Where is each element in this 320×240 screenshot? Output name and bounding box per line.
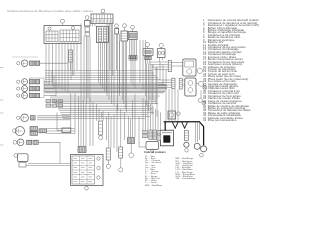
wire — [51, 70, 53, 81]
CDI inner cell B — [103, 28, 106, 42]
switch cell grid left — [46, 31, 58, 42]
item 29 callout — [177, 112, 181, 116]
wire — [117, 34, 119, 111]
wire — [78, 96, 80, 146]
lamp item 22 — [22, 86, 28, 92]
lamp connector 22a — [30, 86, 35, 90]
wire — [73, 42, 75, 76]
wire — [89, 36, 91, 102]
wire — [63, 118, 145, 120]
TORS box — [115, 28, 119, 34]
wire — [171, 89, 173, 122]
wire — [134, 94, 136, 137]
wire — [111, 24, 113, 104]
CDI inner cell A — [98, 28, 101, 42]
item 36 callout — [185, 149, 189, 153]
harness connector B — [179, 78, 182, 89]
wire — [58, 42, 60, 89]
connector block (item 4) — [91, 14, 113, 24]
wire — [155, 67, 157, 104]
wire — [147, 102, 149, 130]
item 38 callout — [99, 136, 103, 140]
wire — [52, 44, 54, 86]
wire — [172, 62, 183, 64]
item 10 callout — [145, 43, 149, 47]
wire — [37, 117, 70, 119]
wire — [55, 103, 158, 105]
relay box — [85, 21, 91, 27]
wire — [158, 84, 172, 86]
harness connector A — [172, 78, 175, 88]
left margin wire stubs — [0, 67, 4, 69]
wire — [123, 62, 125, 104]
wire — [132, 59, 134, 86]
wire — [92, 102, 94, 146]
wire — [67, 42, 69, 93]
wire — [56, 112, 58, 130]
tail connector — [27, 140, 32, 144]
wire — [62, 23, 64, 25]
harness connector D — [69, 50, 73, 62]
wire — [130, 40, 132, 56]
ignition coil — [128, 32, 137, 40]
wire — [113, 34, 115, 106]
fuse callout a — [97, 157, 100, 160]
wire — [196, 70, 197, 72]
connector box item 8 — [121, 31, 128, 41]
tail lamp — [17, 139, 24, 146]
wire — [109, 24, 111, 71]
wire — [172, 65, 183, 67]
battery — [160, 130, 173, 146]
wire — [112, 24, 114, 76]
wire — [156, 67, 158, 117]
handlebar switch assembly box — [44, 26, 81, 44]
wire — [52, 99, 157, 101]
wire — [44, 83, 166, 85]
wire — [128, 117, 130, 138]
item 28 callout — [151, 149, 154, 152]
wire — [130, 144, 132, 153]
wire — [126, 41, 128, 62]
wire — [38, 141, 60, 143]
item 24 callout — [17, 116, 20, 119]
wire — [108, 112, 110, 147]
wire — [149, 62, 151, 100]
wire — [138, 117, 140, 148]
lamp connector 22b — [35, 86, 40, 90]
fuse box top connector — [78, 147, 86, 153]
item 20 callout — [17, 62, 20, 65]
wire — [152, 65, 154, 101]
fuse callout c — [97, 176, 100, 179]
wire — [87, 36, 89, 98]
wire — [70, 42, 72, 80]
wire — [86, 36, 88, 104]
wire — [158, 79, 172, 81]
wire — [119, 34, 121, 96]
wire — [132, 29, 134, 32]
item 23 callout — [17, 94, 20, 97]
wire — [182, 84, 184, 86]
wire — [142, 40, 144, 90]
wire — [177, 90, 179, 122]
wire — [129, 40, 131, 56]
wire — [45, 72, 154, 74]
wire — [145, 40, 147, 96]
wire — [124, 28, 126, 32]
wire — [97, 43, 99, 84]
wire — [86, 186, 88, 187]
wire — [67, 63, 69, 70]
wire — [45, 44, 47, 84]
wire — [148, 64, 150, 111]
wire — [124, 62, 126, 109]
wire — [102, 111, 104, 121]
item 22 callout — [17, 87, 20, 90]
magneto boss — [184, 142, 189, 147]
flasher relay — [18, 154, 29, 162]
wire — [158, 87, 172, 89]
wire — [28, 163, 71, 165]
sensor box — [157, 49, 165, 58]
wire — [157, 111, 159, 131]
schematic drawing — [0, 0, 263, 192]
wire — [59, 110, 150, 112]
wire — [58, 108, 152, 110]
spark plug caps — [129, 56, 130, 59]
wire — [72, 62, 74, 76]
wire — [61, 113, 148, 115]
wire — [145, 100, 147, 130]
wire — [174, 89, 176, 122]
wire — [132, 40, 134, 56]
junction connector cluster — [46, 100, 51, 103]
wire — [44, 89, 166, 91]
item 27 callout — [14, 154, 18, 158]
item 41 callout — [119, 168, 123, 172]
lamp connector 23a — [30, 93, 35, 97]
wire — [74, 93, 76, 134]
wire — [159, 62, 161, 80]
headlight connector c — [39, 129, 47, 133]
wire — [44, 81, 52, 83]
wire — [135, 40, 137, 56]
wire — [59, 142, 61, 163]
lamp item 23 — [22, 93, 28, 99]
wire — [107, 160, 109, 164]
wire — [121, 62, 123, 100]
item 8 callout — [123, 24, 127, 28]
wire — [70, 62, 72, 70]
fuse callout b — [97, 166, 100, 169]
CDI unit (item 6) — [96, 26, 108, 42]
headlight connector b — [30, 131, 38, 135]
wire — [105, 43, 107, 93]
wire — [47, 130, 76, 132]
connector cluster left of battery — [143, 131, 148, 134]
wire — [149, 60, 151, 64]
wire — [124, 41, 126, 62]
lead connector F — [106, 148, 110, 160]
sensor terminals — [158, 52, 161, 55]
fuse box outer — [71, 155, 104, 186]
lead connector G — [119, 147, 123, 158]
wire — [94, 24, 96, 27]
wire — [162, 65, 164, 86]
item 35 callout — [200, 153, 204, 157]
wire — [85, 104, 87, 146]
wire — [26, 165, 71, 167]
wire — [50, 97, 158, 99]
wire — [196, 83, 199, 85]
wire — [142, 98, 144, 130]
item 39 callout — [85, 187, 89, 191]
wire — [95, 104, 97, 121]
wire — [108, 24, 110, 101]
item 7 callout — [115, 24, 119, 28]
wire — [116, 34, 118, 70]
wire — [79, 145, 81, 148]
wire — [113, 114, 115, 148]
lamp connector 21b — [35, 80, 40, 84]
wire — [150, 61, 168, 63]
wire — [110, 117, 112, 148]
colour code heading — [144, 151, 166, 154]
wire — [162, 58, 164, 61]
lamp group frame — [30, 78, 45, 98]
coil inner — [129, 33, 136, 38]
wire — [126, 62, 128, 112]
wire — [155, 109, 157, 130]
tail connector b — [33, 140, 38, 144]
wire — [45, 76, 158, 78]
diode box — [62, 128, 71, 133]
item 30 callout — [197, 68, 202, 73]
wire — [120, 109, 122, 147]
wire — [48, 44, 50, 85]
item 21 callout — [17, 80, 20, 83]
item 32 callout — [203, 86, 207, 90]
wire — [198, 122, 200, 140]
item 4 callout — [101, 9, 105, 13]
fuse box grid — [72, 156, 95, 184]
wire — [160, 47, 162, 48]
item 33 callout — [198, 98, 202, 102]
headlight lamp — [15, 126, 24, 135]
wire — [92, 24, 94, 27]
wire — [55, 44, 57, 88]
relay lower b — [85, 33, 90, 37]
wire — [139, 40, 141, 83]
relay lower a — [85, 27, 90, 32]
wire — [152, 106, 154, 130]
wire — [61, 42, 63, 91]
item 11 callout — [159, 43, 163, 47]
wire — [116, 104, 118, 152]
wire — [44, 86, 166, 88]
wire — [44, 88, 167, 90]
item 25 callout — [13, 129, 17, 133]
wire — [98, 109, 100, 121]
colour code right column — [176, 158, 196, 180]
wire — [130, 119, 132, 137]
wire — [106, 117, 108, 141]
switch cell grid right — [60, 30, 79, 42]
main switch assembly — [183, 59, 196, 76]
wire — [45, 92, 164, 94]
lamp item 24 — [21, 114, 29, 122]
ignition coil callout — [131, 25, 135, 29]
wire — [47, 128, 76, 130]
wire — [146, 64, 148, 107]
wire — [160, 112, 162, 130]
wire — [146, 47, 148, 49]
wire — [44, 88, 54, 90]
wire — [102, 13, 104, 14]
wire — [194, 122, 196, 142]
wire — [99, 43, 101, 86]
wire — [56, 105, 150, 107]
lamp connector 21a — [30, 80, 35, 84]
harness connector C — [168, 61, 171, 72]
wire — [182, 79, 184, 81]
wire — [44, 95, 56, 97]
wire — [139, 146, 146, 148]
wire — [124, 112, 126, 140]
wire — [57, 129, 62, 131]
headlight connector a — [30, 127, 38, 131]
item 12 callout — [71, 26, 74, 29]
item 5 callout — [85, 16, 89, 20]
faint note — [12, 56, 38, 58]
wire — [158, 82, 172, 84]
wire — [44, 85, 167, 87]
wire — [152, 66, 168, 68]
colour code left column — [145, 156, 162, 187]
wire — [150, 64, 168, 66]
ground boss — [201, 146, 207, 152]
wire — [83, 145, 85, 148]
component legend list — [203, 20, 269, 122]
wire — [45, 69, 152, 71]
main switch inner — [185, 61, 194, 67]
wire — [86, 20, 88, 21]
wire — [151, 65, 153, 115]
wire lead E — [99, 121, 103, 135]
pickup coil — [194, 143, 200, 149]
wire — [45, 75, 156, 77]
thermo unit box — [143, 49, 153, 56]
wire — [165, 70, 167, 122]
wire — [116, 27, 118, 30]
item 1 callout — [61, 19, 65, 23]
item 31 callout — [199, 81, 204, 86]
wire — [60, 111, 154, 113]
lead connector H — [128, 138, 135, 144]
lamp connector 20a — [30, 61, 35, 65]
item 40 callout — [106, 164, 110, 168]
wire — [154, 69, 168, 71]
wire — [45, 79, 160, 81]
wire — [55, 80, 57, 96]
wire — [159, 58, 161, 63]
magneto lead ladder — [184, 131, 188, 141]
wire — [37, 119, 70, 121]
wire — [80, 96, 82, 146]
starter relay box bottom — [146, 142, 159, 150]
lamp connector 23b — [35, 93, 40, 97]
wire — [131, 100, 133, 137]
flasher sub — [19, 163, 26, 168]
wire — [134, 40, 136, 56]
lamp item 21 — [22, 79, 28, 85]
title text — [7, 9, 93, 13]
wire — [80, 24, 82, 97]
lamp item 20 — [21, 60, 28, 67]
chassis ground thick wire — [164, 122, 204, 146]
wire — [53, 101, 156, 103]
lamp connector 20b — [35, 61, 40, 65]
wire — [147, 60, 149, 64]
wire — [101, 43, 103, 89]
item 42 callout — [129, 153, 134, 158]
wire — [83, 100, 85, 146]
item 34 callout — [202, 101, 206, 105]
wire — [123, 41, 125, 62]
rear brake switch assembly — [185, 78, 196, 96]
wire — [119, 41, 121, 93]
wire — [121, 41, 123, 62]
wire — [40, 62, 68, 64]
wire — [200, 90, 202, 98]
wire — [44, 82, 164, 84]
wire — [120, 158, 122, 168]
wire — [53, 76, 55, 89]
wire — [47, 133, 76, 135]
wire — [168, 89, 170, 122]
wire slack loops — [172, 122, 187, 128]
wire — [70, 93, 72, 129]
wire — [37, 115, 70, 117]
starter relay (above chassis wire) — [168, 111, 176, 119]
wire — [101, 112, 103, 118]
wire — [106, 24, 108, 97]
wire — [150, 104, 152, 130]
wire — [64, 42, 66, 92]
wire — [134, 59, 136, 89]
wire — [89, 98, 91, 146]
wire — [130, 59, 132, 83]
thermo connector — [145, 56, 151, 59]
wire — [50, 95, 160, 97]
wire — [103, 43, 105, 92]
wire — [76, 42, 78, 71]
item 26 callout — [13, 140, 17, 144]
wire — [44, 90, 165, 92]
lamp connector 24a — [31, 116, 36, 120]
wire — [62, 116, 150, 118]
wire — [196, 122, 198, 142]
item 13 callout — [48, 27, 51, 30]
wire — [145, 60, 147, 64]
wire — [83, 36, 85, 100]
